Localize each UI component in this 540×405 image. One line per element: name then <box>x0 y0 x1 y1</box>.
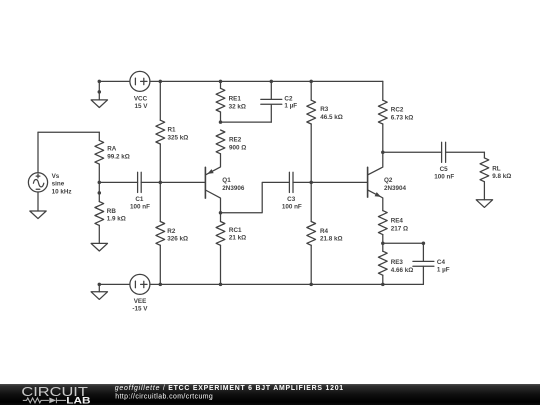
svg-text:RC1: RC1 <box>229 227 242 234</box>
svg-text:RE3: RE3 <box>391 259 404 266</box>
svg-text:9.8 kΩ: 9.8 kΩ <box>492 173 511 180</box>
svg-text:C5: C5 <box>440 166 449 173</box>
svg-text:C4: C4 <box>437 259 446 266</box>
svg-text:21.8 kΩ: 21.8 kΩ <box>320 236 343 243</box>
svg-text:R3: R3 <box>320 106 329 113</box>
svg-text:RA: RA <box>107 145 117 152</box>
svg-text:RL: RL <box>492 165 501 172</box>
svg-text:1 µF: 1 µF <box>284 103 297 110</box>
svg-text:RE4: RE4 <box>391 217 404 224</box>
svg-text:900 Ω: 900 Ω <box>229 145 246 152</box>
svg-text:RC2: RC2 <box>391 106 404 113</box>
svg-text:326 kΩ: 326 kΩ <box>167 236 188 243</box>
svg-text:100 nF: 100 nF <box>434 174 454 181</box>
svg-text:100 nF: 100 nF <box>130 204 150 211</box>
svg-text:C1: C1 <box>135 196 144 203</box>
svg-text:4.66 kΩ: 4.66 kΩ <box>391 267 414 274</box>
svg-text:RE1: RE1 <box>229 96 242 103</box>
svg-text:Vs: Vs <box>52 173 60 180</box>
svg-text:10 kHz: 10 kHz <box>52 188 72 195</box>
svg-text:RE2: RE2 <box>229 137 242 144</box>
svg-text:6.73 kΩ: 6.73 kΩ <box>391 114 414 121</box>
svg-text:21 kΩ: 21 kΩ <box>229 235 246 242</box>
svg-text:RB: RB <box>107 208 117 215</box>
svg-text:325 kΩ: 325 kΩ <box>168 134 189 141</box>
svg-text:46.5 kΩ: 46.5 kΩ <box>320 114 343 121</box>
svg-text:R4: R4 <box>320 228 329 235</box>
svg-text:VEE: VEE <box>134 298 147 305</box>
svg-text:-15 V: -15 V <box>132 306 148 313</box>
svg-text:R1: R1 <box>168 126 177 133</box>
svg-text:99.2 kΩ: 99.2 kΩ <box>107 153 130 160</box>
svg-text:geoffgillette / ETCC EXPERIMEN: geoffgillette / ETCC EXPERIMENT 6 BJT AM… <box>115 385 344 392</box>
svg-text:1 µF: 1 µF <box>437 267 450 274</box>
svg-text:1.9 kΩ: 1.9 kΩ <box>107 216 126 223</box>
svg-text:sine: sine <box>52 181 65 188</box>
svg-text:VCC: VCC <box>134 95 148 102</box>
svg-text:Q2: Q2 <box>384 177 393 184</box>
svg-text:C3: C3 <box>287 196 296 203</box>
svg-text:217 Ω: 217 Ω <box>391 225 408 232</box>
svg-text:http://circuitlab.com/crtcumg: http://circuitlab.com/crtcumg <box>115 393 213 400</box>
svg-text:15 V: 15 V <box>135 103 149 110</box>
svg-text:100 nF: 100 nF <box>282 204 302 211</box>
svg-text:C2: C2 <box>284 96 293 103</box>
svg-text:2N3904: 2N3904 <box>384 185 407 192</box>
svg-text:2N3906: 2N3906 <box>222 185 245 192</box>
svg-text:32 kΩ: 32 kΩ <box>229 104 246 111</box>
svg-text:R2: R2 <box>167 228 176 235</box>
svg-text:Q1: Q1 <box>222 177 231 184</box>
svg-text:LAB: LAB <box>66 396 90 405</box>
